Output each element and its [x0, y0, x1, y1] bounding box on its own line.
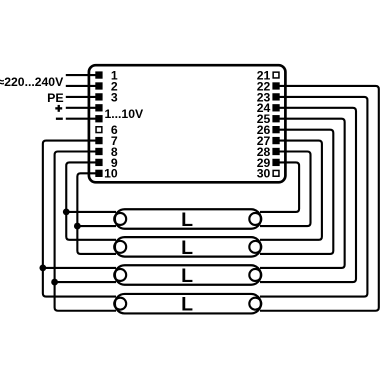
lamp L1 right cathode	[249, 213, 261, 225]
pin 27	[272, 137, 279, 144]
wire branch lamp1 bottom	[77, 225, 116, 227]
pin 24	[272, 104, 279, 111]
wire pin28 to lamp1 bottom right	[260, 151, 311, 226]
ballast box U1	[89, 65, 286, 182]
pin 25	[272, 115, 279, 122]
wire pin26 to lamp2 bottom right	[260, 130, 333, 254]
wire pin25 to lamp3 top right	[260, 119, 345, 268]
pin 29	[272, 159, 279, 166]
wire branch lamp3 top	[43, 267, 116, 269]
svg-text:L: L	[181, 237, 193, 259]
wire pin10 to lamp2 bottom	[77, 173, 116, 254]
lamp L2 right cathode	[249, 241, 261, 253]
wire pin4 plus	[66, 107, 97, 109]
lamp L4 left cathode	[114, 298, 126, 310]
svg-text:≈220...240V: ≈220...240V	[0, 75, 64, 89]
pin 28	[272, 148, 279, 155]
junction lamp3 bottom	[51, 279, 58, 286]
label minus	[56, 118, 63, 120]
lamp L2 left cathode	[114, 241, 126, 253]
svg-text:L: L	[181, 265, 193, 287]
pin 9	[95, 159, 102, 166]
wire pin5 minus	[66, 118, 97, 120]
wire branch lamp1 top	[66, 211, 116, 213]
junction lamp3 top	[39, 265, 46, 272]
junction lamp1 bottom	[74, 223, 81, 230]
pin 8	[95, 148, 102, 155]
pin 23	[272, 93, 279, 100]
pin 5	[95, 115, 102, 122]
lamp L3 left cathode	[114, 269, 126, 281]
lamp L2 body	[115, 237, 261, 257]
lamp L4 body	[115, 294, 261, 314]
svg-text:PE: PE	[47, 91, 64, 105]
wire pin1 mains L	[66, 74, 97, 76]
label plus	[55, 105, 62, 112]
wire pin3 PE	[66, 96, 97, 98]
lamp L4 right cathode	[249, 298, 261, 310]
pin 3	[95, 93, 102, 100]
pin 10	[95, 170, 102, 177]
pin 2	[95, 82, 102, 89]
wire pin8 to lamp4 bottom	[55, 151, 116, 310]
lamp L3 body	[115, 265, 261, 285]
wire pin22 to lamp4 bottom right	[260, 86, 379, 311]
wire pin29 to lamp1 top right	[260, 162, 299, 211]
wire pin9 to lamp2 top	[66, 162, 116, 239]
pin 1	[95, 71, 102, 78]
wire pin7 to lamp4 top	[43, 141, 116, 297]
svg-text:30: 30	[257, 167, 271, 181]
svg-text:L: L	[181, 294, 193, 316]
svg-text:L: L	[181, 209, 193, 231]
pin 21	[273, 72, 279, 78]
pin 6	[96, 127, 102, 133]
wire branch lamp3 bottom	[55, 281, 116, 283]
lamp L1 body	[115, 209, 261, 229]
pin 30	[273, 170, 279, 176]
wire pin24 to lamp3 bottom right	[260, 108, 356, 282]
pin 26	[272, 126, 279, 133]
lamp L1 left cathode	[114, 213, 126, 225]
pin 22	[272, 82, 279, 89]
wire pin27 to lamp2 top right	[260, 141, 322, 240]
wire pin23 to lamp4 top right	[260, 97, 367, 297]
pin 7	[95, 137, 102, 144]
svg-text:3: 3	[111, 90, 118, 104]
wire pin2 mains N	[66, 85, 97, 87]
junction lamp1 top	[63, 209, 70, 216]
lamp L3 right cathode	[249, 269, 261, 281]
pin 4	[95, 104, 102, 111]
svg-text:1...10V: 1...10V	[105, 107, 144, 121]
svg-text:10: 10	[104, 167, 118, 181]
